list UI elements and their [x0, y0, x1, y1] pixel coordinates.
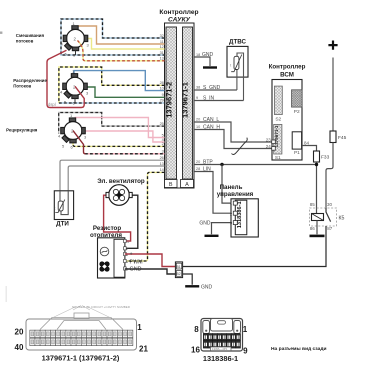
- svg-text:20: 20: [15, 328, 24, 337]
- svg-text:23: 23: [266, 138, 272, 143]
- wire blue/black dashed M2 pin6 to pin B29: [59, 102, 165, 104]
- ground symbol K5.86: [310, 235, 325, 238]
- edge artifact: [0, 32, 2, 34]
- svg-text:9: 9: [243, 346, 248, 355]
- svg-text:26: 26: [160, 156, 164, 160]
- svg-text:10: 10: [196, 125, 200, 129]
- svg-text:13: 13: [160, 57, 164, 61]
- svg-text:40: 40: [15, 343, 24, 352]
- svg-text:2: 2: [162, 142, 164, 146]
- connector bar B 1379671-2: [164, 27, 176, 179]
- svg-text:+: +: [130, 252, 133, 258]
- shield enclosure motor M1 (blue/black dashed): [61, 19, 165, 55]
- svg-text:САУКУ: САУКУ: [168, 16, 190, 23]
- 40-pin connector pin rows: [30, 330, 133, 345]
- svg-text:B: B: [169, 182, 173, 188]
- wire CAN_L pin A20 to BCM pin 23: [194, 122, 272, 142]
- wire connector B2 to ground: [183, 274, 193, 285]
- wire pink/black dashed M3 wiper to pin B3: [85, 153, 165, 155]
- svg-text:3: 3: [162, 150, 164, 154]
- svg-text:24: 24: [266, 144, 272, 149]
- wire relay K5.87 to fan connector B1: [183, 226, 326, 267]
- svg-text:GND: GND: [199, 220, 211, 226]
- svg-text:B1: B1: [177, 265, 181, 269]
- svg-text:9: 9: [196, 96, 198, 100]
- svg-text:LIN: LIN: [203, 167, 211, 173]
- wire gray DTI-1 to pin B26: [60, 160, 165, 192]
- wire blue M2 pin1 to pin B10: [74, 71, 165, 91]
- wire red heater resistor plus to connector B1: [125, 254, 176, 267]
- svg-text:К5: К5: [339, 216, 345, 222]
- svg-text:30: 30: [327, 202, 333, 207]
- fuse F33: [314, 151, 330, 162]
- wire yellow M1 pin3 to pin B12: [88, 39, 165, 50]
- svg-text:9: 9: [162, 93, 164, 97]
- svg-text:PWM: PWM: [130, 259, 144, 265]
- connector bar A 1379671-1: [181, 27, 193, 179]
- connector label B: [165, 180, 178, 189]
- controller SAUKU title: [159, 9, 198, 23]
- heater resistor pin labels: [130, 252, 144, 273]
- svg-text:4: 4: [162, 138, 164, 142]
- wire F45 to relay contact K5.30: [326, 143, 333, 209]
- svg-text:S2: S2: [275, 117, 281, 123]
- svg-text:CAN_H: CAN_H: [203, 124, 220, 130]
- wire BCM P1 pin 84 to fuse F33: [302, 146, 317, 152]
- twisted pair symbol: [232, 138, 248, 155]
- svg-text:ДТВС: ДТВС: [229, 39, 246, 46]
- svg-text:1318386-1: 1318386-1: [237, 201, 243, 228]
- svg-text:5: 5: [162, 133, 164, 137]
- BCM connector S2: [274, 86, 282, 122]
- wire orange M1 pin1 to pin B11: [78, 26, 165, 44]
- svg-text:1: 1: [243, 325, 248, 334]
- svg-text:1379671-1 (1379671-2): 1379671-1 (1379671-2): [42, 354, 120, 363]
- electric fan motor: [106, 185, 132, 206]
- wire pink M3 pin3 to pin B4: [82, 131, 164, 142]
- svg-text:S_GND: S_GND: [203, 85, 221, 91]
- svg-text:t: t: [55, 207, 56, 211]
- actuator motor M1 (air mix): [61, 21, 90, 58]
- svg-text:1379671-2: 1379671-2: [164, 82, 173, 118]
- svg-text:18: 18: [196, 53, 200, 57]
- svg-text:87: 87: [327, 226, 333, 231]
- wire M1 pin6 stub: [75, 51, 77, 55]
- wire S_GND pin A38 to DTVS: [194, 89, 237, 91]
- svg-text:GND: GND: [202, 52, 214, 58]
- svg-text:29: 29: [160, 98, 164, 102]
- svg-text:8: 8: [194, 325, 199, 334]
- wire F33 to relay coil K5.85: [316, 162, 318, 214]
- svg-text:dspl: dspl: [48, 102, 56, 107]
- svg-text:16: 16: [191, 345, 200, 354]
- wire gray DTI-2 to pin B13: [68, 166, 164, 192]
- svg-text:P1: P1: [294, 150, 300, 156]
- sensor DTVS: [227, 39, 248, 101]
- wire M2 pin6 stub: [74, 99, 76, 103]
- relay K5: [310, 202, 345, 231]
- svg-text:10: 10: [160, 86, 164, 90]
- actuator motor M2 (air distribution): [60, 69, 89, 106]
- shield enclosure motor M2 (yellow/black dashed): [59, 67, 165, 103]
- svg-text:потоков: потоков: [16, 39, 34, 44]
- svg-text:28: 28: [196, 167, 200, 171]
- svg-text:A: A: [185, 182, 189, 188]
- svg-text:Смешивания: Смешивания: [16, 33, 45, 38]
- wire black fan to heater resistor pin2: [125, 195, 138, 248]
- svg-text:F45: F45: [338, 135, 347, 141]
- svg-text:BTP: BTP: [203, 159, 213, 165]
- svg-text:4: 4: [126, 260, 128, 264]
- BCM connector P2: [292, 90, 303, 115]
- connector label A: [181, 180, 194, 189]
- svg-text:32: 32: [160, 34, 164, 38]
- svg-text:1379671-1: 1379671-1: [181, 82, 190, 118]
- svg-text:11: 11: [160, 40, 164, 44]
- svg-text:Панель: Панель: [220, 184, 243, 191]
- actuator motor M3 (recirculation): [58, 113, 87, 150]
- ground symbol B2: [185, 285, 199, 287]
- svg-text:28: 28: [160, 81, 164, 85]
- svg-text:1318386-1: 1318386-1: [203, 354, 238, 363]
- wire yellow/black dashed heater resistor PWM to pin B14: [125, 172, 165, 261]
- svg-text:Контроллер: Контроллер: [159, 9, 198, 16]
- svg-text:Потоков: Потоков: [13, 84, 31, 89]
- BCM connector S1 1379671-1: [266, 124, 282, 160]
- sensor DTI: [54, 191, 73, 220]
- pin numbers connector B left side: [160, 34, 164, 172]
- BCM controller box: [272, 80, 302, 161]
- svg-text:Распределение: Распределение: [13, 78, 47, 83]
- heater resistor R1: [98, 238, 130, 278]
- wire red M3 wiper to dashed pink wire: [73, 131, 86, 154]
- wire red fan to heater resistor pin1: [104, 195, 131, 241]
- wire CAN_H pin A10 to BCM pin 24: [194, 130, 272, 149]
- svg-text:S1: S1: [275, 155, 281, 161]
- wire BTP pin A29: [194, 164, 317, 166]
- svg-text:1: 1: [137, 323, 142, 332]
- svg-text:1: 1: [127, 240, 129, 244]
- wire yellow/red dashed M1 wiper to pin B13: [78, 41, 165, 61]
- svg-text:NUMBER OF CIRCUIT +CAVITY NUMB: NUMBER OF CIRCUIT +CAVITY NUMBER: [72, 305, 131, 309]
- svg-text:CAN_L: CAN_L: [203, 117, 219, 123]
- svg-text:21: 21: [139, 345, 148, 354]
- svg-text:На разъемы вид сзади: На разъемы вид сзади: [271, 346, 326, 352]
- wire S_IN pin A9 to DTVS: [194, 100, 244, 102]
- svg-text:P2: P2: [294, 109, 300, 115]
- wire red M1 pin5 to M2 wiper: [47, 50, 84, 107]
- svg-text:B2: B2: [177, 272, 181, 276]
- 40-pin connector drawing (rear view): [26, 305, 137, 350]
- svg-text:ВСМ: ВСМ: [280, 72, 294, 79]
- junction node BTP/panel: [220, 163, 223, 166]
- svg-text:Эл. вентилятор: Эл. вентилятор: [97, 178, 145, 185]
- svg-text:84: 84: [304, 140, 310, 145]
- junction node BTP/F33/K5: [315, 163, 318, 166]
- svg-text:GND: GND: [130, 267, 142, 273]
- svg-text:20: 20: [196, 118, 200, 122]
- ground symbol panel: [205, 235, 219, 237]
- svg-text:25: 25: [160, 122, 164, 126]
- svg-text:Резистор: Резистор: [93, 225, 121, 232]
- svg-text:20: 20: [196, 160, 200, 164]
- battery plus symbol: [328, 41, 337, 50]
- fan power connector B1/B2: [175, 262, 182, 278]
- svg-text:Контроллер: Контроллер: [269, 64, 306, 71]
- svg-text:38: 38: [196, 86, 200, 90]
- svg-text:ДТИ: ДТИ: [56, 221, 69, 228]
- BCM connector P1: [292, 132, 301, 156]
- svg-text:управления: управления: [217, 191, 254, 198]
- wire GND pin A18: [194, 57, 210, 66]
- control panel box: [230, 199, 259, 237]
- wire LIN pin A28 to panel pin 2: [194, 172, 233, 214]
- wire BTP junction to panel pin 1: [222, 165, 233, 204]
- svg-text:2: 2: [126, 247, 128, 251]
- svg-text:13: 13: [160, 162, 164, 166]
- svg-text:Рециркуляция: Рециркуляция: [6, 127, 38, 132]
- wire black heater resistor GND to connector B2: [125, 269, 176, 274]
- svg-text:14: 14: [160, 168, 164, 172]
- svg-text:31: 31: [160, 51, 164, 55]
- fuse F45: [330, 131, 347, 143]
- wire panel pin 9 GND: [212, 223, 234, 235]
- svg-text:13WA—4P1: 13WA—4P1: [212, 347, 228, 351]
- wire relay K5.86 to ground: [316, 221, 318, 235]
- wire plus to fuse F45: [332, 58, 334, 132]
- svg-text:GND: GND: [201, 285, 213, 291]
- svg-text:S_IN: S_IN: [203, 95, 215, 101]
- svg-text:F33: F33: [321, 154, 330, 160]
- svg-text:85: 85: [310, 202, 316, 207]
- ground symbol A18: [203, 66, 217, 68]
- svg-text:t: t: [230, 64, 231, 68]
- svg-text:12: 12: [160, 45, 164, 49]
- 16-pin connector drawing (rear view): [201, 319, 243, 352]
- svg-text:1379671-1: 1379671-1: [274, 125, 279, 147]
- wire green M2 pin3 to pin B9: [84, 87, 164, 97]
- wire pink M3 pin1 to pin B5: [75, 118, 165, 138]
- controller SAUKU outer box: [165, 23, 195, 188]
- svg-text:86: 86: [310, 226, 316, 231]
- wire yellow/black dashed M3 pin6 to pin B2: [73, 140, 165, 146]
- shield enclosure motor M3 (gray/black dashed): [59, 113, 165, 134]
